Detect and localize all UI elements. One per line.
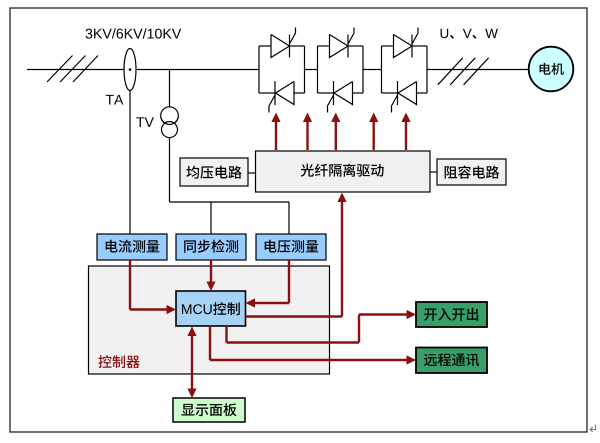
thyristor V3a (forward SCR) [394,28,419,58]
thyristor pair V2 frame wires [318,46,364,93]
gate drive arrows from driver to thyristors [271,113,410,151]
label TV [136,117,154,127]
block 显示面板 (display panel) [173,398,245,422]
block 开入开出 (digital in/out) [416,302,487,327]
block MCU控制 (MCU control) [176,291,246,326]
thyristor V3b (reverse SCR) [392,81,417,113]
wire driver to RC circuit [430,171,437,173]
current transformer TA [124,49,136,91]
label TA [106,95,124,105]
block 远程通讯 (remote communication) [416,348,487,374]
motor M (电机) [529,47,574,92]
thyristor pair V3 frame wires [382,46,428,93]
block 均压电路 (grading circuit) [180,158,248,186]
block 同步检测 (sync detection) [176,234,246,260]
block 电流测量 (current measurement) [97,234,167,260]
thyristor V2b (reverse SCR) [328,81,353,113]
red wire sync-detect to MCU [206,260,215,291]
wire main bus left segment [27,69,259,71]
red wire MCU to digital I/O [227,310,417,343]
wire TA to current-measure block [129,91,131,235]
paragraph return mark [590,425,596,433]
block 电压测量 (voltage measurement) [256,234,326,260]
wire bus tap to TV [169,70,171,203]
wire bus segment between pair 1 and 2 [305,69,318,71]
red wire MCU to fiber driver [246,193,347,317]
red wire MCU to remote comms [210,326,416,365]
thyristor V1a (forward SCR) [271,28,296,58]
thyristor V1b (reverse SCR) [269,81,294,113]
wire bus right segment to motor [427,69,529,71]
label 控制器 [98,355,139,368]
voltage transformer TV [161,107,179,138]
label U V W phases [441,29,498,39]
wire horizontal distribution to sync/voltage blocks [170,202,290,234]
block 阻容电路 (RC snubber circuit) [437,159,506,185]
red wire current-measure to MCU [130,260,176,314]
block 控制器 controller enclosure [89,266,330,374]
block 光纤隔离驱动 (fiber-optic isolated driver) [256,151,431,192]
thyristor V2a (forward SCR) [330,28,355,58]
wire grading circuit to driver [248,172,256,174]
3-phase slash marks right [438,58,489,85]
thyristor pair V1 frame wires [259,46,305,93]
red wire MCU to display panel (bidirectional) [187,327,196,399]
3-phase slash marks left [47,56,98,83]
wire bus segment between pair 2 and 3 [363,69,382,71]
red wire voltage-measure to MCU [246,260,290,308]
label 3KV/6KV/10KV supply voltage [86,28,182,38]
